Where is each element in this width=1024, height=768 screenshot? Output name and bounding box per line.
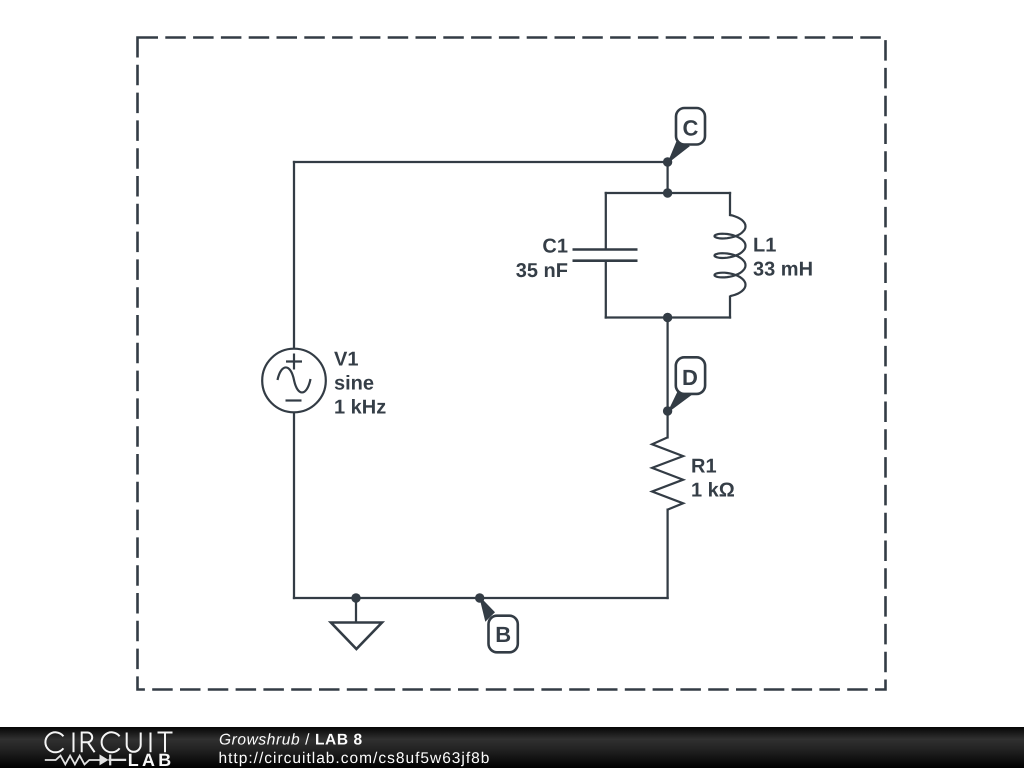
- wire capacitor branch lower lead: [605, 262, 607, 318]
- wire inductor branch lower lead: [729, 297, 731, 318]
- svg-text:D: D: [682, 365, 698, 390]
- junction dot node C: [663, 157, 672, 166]
- wire inductor branch upper lead: [729, 193, 731, 215]
- svg-text:http://circuitlab.com/cs8uf5w6: http://circuitlab.com/cs8uf5w63jf8b: [219, 750, 491, 767]
- wire left vertical lower (V1 bottom to bottom wire): [293, 412, 295, 598]
- wire top horizontal from V1 to node C: [294, 161, 668, 163]
- CircuitLab logo resistor-diode line: [45, 756, 100, 765]
- V1 plus sign: [286, 354, 302, 370]
- wire node D to resistor top: [666, 411, 668, 437]
- svg-text:35 nF: 35 nF: [516, 260, 568, 282]
- svg-text:LAB: LAB: [128, 750, 175, 768]
- svg-text:R1: R1: [691, 456, 717, 478]
- svg-text:sine: sine: [334, 373, 374, 395]
- svg-text:B: B: [495, 622, 511, 647]
- junction dot node B: [475, 593, 484, 602]
- V1 minus sign: [286, 399, 302, 401]
- junction dot LC box bottom: [663, 313, 672, 322]
- svg-text:33 mH: 33 mH: [753, 259, 813, 281]
- node B callout box: [489, 616, 518, 653]
- svg-text:Growshrub / LAB 8: Growshrub / LAB 8: [219, 732, 363, 749]
- wire resistor bottom to bottom rail: [666, 510, 668, 598]
- resistor R1 zigzag: [652, 437, 683, 509]
- voltage source V1 circle: [262, 349, 326, 413]
- node D callout box: [676, 357, 705, 394]
- junction dot LC box top: [663, 188, 672, 197]
- svg-text:1 kHz: 1 kHz: [334, 397, 386, 419]
- svg-text:V1: V1: [334, 349, 358, 371]
- wire node C down to LC box top: [666, 162, 668, 193]
- schematic dashed border frame: [138, 38, 886, 690]
- CircuitLab logo diode cathode bar: [109, 755, 127, 766]
- node D callout pointer: [668, 389, 691, 412]
- junction dot node D: [663, 406, 672, 415]
- svg-text:C: C: [683, 116, 699, 141]
- V1 sine wave: [278, 367, 311, 392]
- wire left vertical upper (V1 top to top wire): [293, 162, 295, 349]
- wire ground stem: [355, 598, 357, 622]
- svg-text:1 kΩ: 1 kΩ: [691, 480, 735, 502]
- node C callout box: [676, 108, 705, 145]
- junction dot ground tap: [351, 593, 360, 602]
- CircuitLab logo CIRCUIT wordmark: [45, 732, 172, 752]
- wire LC box bottom rail: [606, 316, 730, 318]
- wire capacitor branch upper lead: [605, 193, 607, 248]
- CircuitLab logo diode triangle: [100, 754, 109, 765]
- wire LC box bottom to node D: [666, 318, 668, 412]
- node C callout pointer: [668, 139, 689, 162]
- wire bottom horizontal: [294, 597, 668, 599]
- svg-text:C1: C1: [542, 235, 568, 257]
- svg-text:L1: L1: [753, 235, 776, 257]
- wire LC box top rail: [606, 192, 730, 194]
- capacitor C1 plates: [573, 250, 638, 261]
- node B callout pointer: [480, 597, 494, 620]
- ground symbol triangle: [331, 623, 382, 650]
- inductor L1 coil: [715, 215, 746, 296]
